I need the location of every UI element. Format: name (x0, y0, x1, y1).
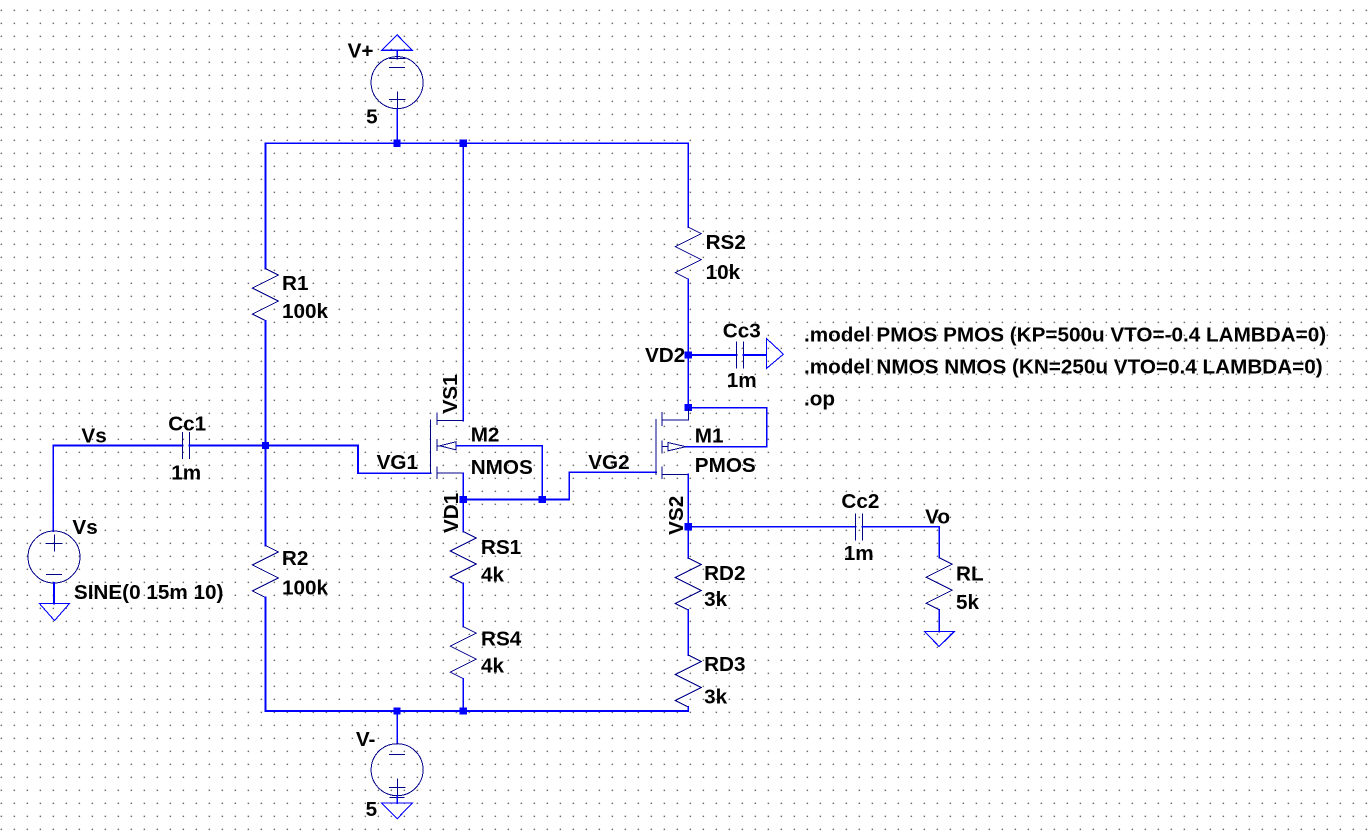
svg-text:VD2: VD2 (645, 344, 685, 367)
svg-text:5k: 5k (956, 591, 980, 614)
wire VS1 top rail to M2 (462, 143, 464, 420)
svg-text:Cc2: Cc2 (841, 490, 879, 513)
svg-text:VG1: VG1 (377, 451, 418, 474)
svg-text:.op: .op (804, 388, 835, 411)
wire bottom rail to V- (396, 711, 398, 744)
wire Vo down to RL (938, 527, 940, 558)
resistor RD2 (675, 558, 701, 610)
resistor RS1 (450, 532, 476, 584)
svg-text:M2: M2 (471, 424, 500, 447)
svg-text:RL: RL (956, 563, 984, 586)
resistor RS2 (675, 227, 701, 279)
svg-text:Vo: Vo (925, 505, 950, 528)
node junction VS1 / top rail (460, 140, 467, 147)
svg-text:Cc1: Cc1 (168, 413, 206, 436)
svg-text:RS1: RS1 (481, 536, 521, 559)
wire Cc1 to node (190, 445, 266, 447)
wire bottom rail (265, 710, 688, 712)
wire RD2 to RD3 (687, 610, 689, 655)
ground (RL) (925, 632, 955, 647)
wire Cc3 to output flag (744, 354, 767, 356)
svg-text:3k: 3k (704, 685, 728, 708)
wire RD3 to bottom rail (687, 707, 689, 711)
svg-text:1m: 1m (171, 462, 201, 485)
flag V+ (382, 35, 412, 59)
output flag (VD2) (766, 338, 783, 368)
resistor RS4 (450, 627, 476, 679)
ground (Vs) (40, 604, 70, 621)
svg-text:V+: V+ (348, 40, 374, 63)
svg-text:NMOS: NMOS (471, 456, 533, 479)
transistor M1 PMOS (656, 408, 767, 527)
wire Vs to Cc1 (53, 445, 182, 447)
wire top rail to RS2 (687, 143, 689, 227)
wire VS2 to Cc2 (688, 526, 856, 528)
svg-text:1m: 1m (727, 369, 757, 392)
wire top rail to R1 (264, 143, 266, 268)
svg-text:4k: 4k (481, 563, 505, 586)
svg-text:RS2: RS2 (706, 231, 746, 254)
wire RL to ground (938, 610, 940, 632)
capacitor Cc3 (737, 342, 744, 368)
node junction VD1 / VG2 branch (539, 496, 546, 503)
svg-text:VS1: VS1 (439, 374, 462, 413)
wire VD2 to Cc3 (688, 354, 736, 356)
svg-text:Vs: Vs (81, 425, 106, 448)
svg-text:1m: 1m (844, 542, 874, 565)
svg-text:5: 5 (366, 106, 378, 129)
wire R2 to bottom rail (264, 597, 266, 711)
voltage source V+ source (371, 57, 423, 109)
resistor RL (926, 558, 952, 610)
svg-text:VG2: VG2 (588, 451, 629, 474)
wire VD1 row (463, 498, 542, 500)
svg-text:RD3: RD3 (704, 653, 745, 676)
svg-text:R2: R2 (282, 547, 308, 570)
svg-text:10k: 10k (706, 261, 741, 284)
wire Cc2 to Vo (862, 526, 939, 528)
flag V- ground style (382, 796, 413, 819)
node junction V- / bottom rail (394, 707, 401, 714)
capacitor Cc1 (183, 433, 190, 459)
node junction V+ / top rail (394, 140, 401, 147)
wire RS4 to bottom rail (462, 679, 464, 711)
voltage source Vs source (28, 531, 80, 583)
wire VD1 to VG2 / M1 gate (542, 472, 656, 499)
node junction VD1 (460, 496, 467, 503)
node junction M1 source/bulk (685, 404, 692, 411)
wire RS1 to RS4 (462, 584, 464, 627)
svg-text:5: 5 (366, 798, 378, 821)
svg-text:VD1: VD1 (440, 493, 463, 533)
node junction Vs row / left column (262, 442, 269, 449)
svg-text:3k: 3k (704, 588, 728, 611)
resistor RD3 (675, 655, 701, 707)
wire RS2 to VD2 to M1 (687, 279, 689, 408)
svg-text:4k: 4k (481, 655, 505, 678)
resistor R1 (252, 269, 278, 321)
node junction VD2 (685, 351, 692, 358)
node junction RS4 / bottom rail (460, 707, 467, 714)
wire V+ to top rail (396, 109, 398, 143)
resistor R2 (252, 545, 278, 597)
wire down to Vs source (52, 446, 54, 532)
voltage source V- source (371, 744, 423, 796)
transistor M2 NMOS (431, 413, 543, 500)
svg-text:100k: 100k (282, 577, 329, 600)
svg-text:PMOS: PMOS (695, 454, 756, 477)
svg-text:V-: V- (356, 728, 376, 751)
wire VS2 to RD2 (687, 527, 689, 558)
svg-text:SINE(0 15m 10): SINE(0 15m 10) (74, 581, 223, 604)
svg-text:.model NMOS NMOS (KN=250u VTO=: .model NMOS NMOS (KN=250u VTO=0.4 LAMBDA… (804, 356, 1323, 379)
wire Vs source to ground (53, 583, 55, 604)
svg-text:Cc3: Cc3 (723, 320, 761, 343)
capacitor Cc2 (856, 514, 863, 540)
wire VD1 to RS1 (462, 499, 464, 531)
svg-text:Vs: Vs (72, 516, 97, 539)
svg-text:VS2: VS2 (665, 496, 688, 535)
svg-text:RD2: RD2 (704, 562, 745, 585)
svg-text:.model PMOS PMOS (KP=500u VTO=: .model PMOS PMOS (KP=500u VTO=-0.4 LAMBD… (804, 324, 1326, 347)
svg-text:RS4: RS4 (481, 627, 522, 650)
node junction VS2 (685, 523, 692, 530)
svg-text:R1: R1 (282, 272, 308, 295)
wire top rail V+ (265, 142, 688, 144)
svg-text:100k: 100k (282, 300, 329, 323)
wire R1 to R2 (264, 321, 266, 546)
wire VG1 node to step (265, 446, 430, 474)
svg-text:M1: M1 (695, 425, 724, 448)
